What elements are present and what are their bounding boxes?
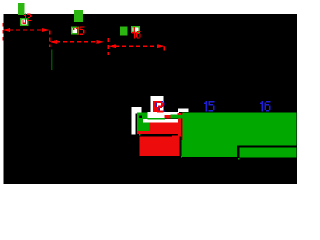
- green creature body: [137, 113, 150, 131]
- arrow right L2: [96, 40, 104, 44]
- arrow right L3: [157, 44, 165, 48]
- mini 12 label (red copy): [153, 101, 163, 113]
- blue label 16: [260, 101, 271, 112]
- marker box 15: [71, 26, 79, 34]
- thin green arm line: [147, 118, 165, 120]
- red dash mid: [165, 115, 171, 119]
- dimension line 2 (y=42): [56, 41, 97, 43]
- white upper row left part (deeper): [147, 112, 164, 118]
- white lower band: [143, 119, 178, 123]
- dark red boundary line: [181, 112, 182, 139]
- small green block: [171, 115, 184, 119]
- green block 3: [120, 26, 128, 35]
- label 12 (red): [24, 14, 31, 21]
- green platform (main): [181, 112, 296, 157]
- label 16 (red): [133, 31, 141, 39]
- mini 12 label (blue copy): [155, 101, 164, 112]
- extension line v3: [107, 38, 109, 55]
- green dot at platform left foot: [181, 156, 182, 157]
- white bar top-right: [178, 109, 189, 113]
- green dot under creature: [139, 134, 141, 136]
- arrow left L3: [109, 44, 117, 48]
- extension line v2: [49, 31, 51, 48]
- dark green stem: [51, 50, 52, 71]
- red pin inside box 15: [73, 28, 75, 30]
- green block 1: [18, 3, 25, 15]
- red mid block: [149, 122, 181, 133]
- arrow left L2: [50, 40, 58, 44]
- white box around mini 12: [151, 96, 164, 112]
- creature eye: [139, 115, 142, 118]
- platform step outline: [237, 145, 296, 157]
- blue label 15: [204, 101, 215, 112]
- red block upper lip: [172, 135, 182, 136]
- green dot below step: [238, 158, 239, 159]
- red pin inside box 12: [22, 20, 26, 24]
- red under creature: [137, 131, 150, 134]
- extension line v1 at left edge: [2, 23, 4, 43]
- red pin inside box 16: [132, 27, 135, 34]
- big red block: [140, 137, 180, 157]
- white upper row under box: [147, 112, 179, 115]
- green block 2: [74, 10, 83, 22]
- dimension line 1 (y=30): [9, 29, 43, 31]
- arrow left L1: [3, 28, 11, 32]
- black canvas background: [4, 14, 297, 184]
- dimension line 3 (y=46): [115, 45, 157, 47]
- marker box 12: [20, 18, 29, 26]
- red column right: [178, 119, 181, 136]
- white L-wall left: [131, 107, 141, 135]
- marker box 16: [131, 26, 140, 33]
- red bar over green: [178, 113, 182, 115]
- label 15 (red): [76, 26, 84, 34]
- arrow right L1: [42, 28, 50, 32]
- extension line v4: [163, 47, 165, 54]
